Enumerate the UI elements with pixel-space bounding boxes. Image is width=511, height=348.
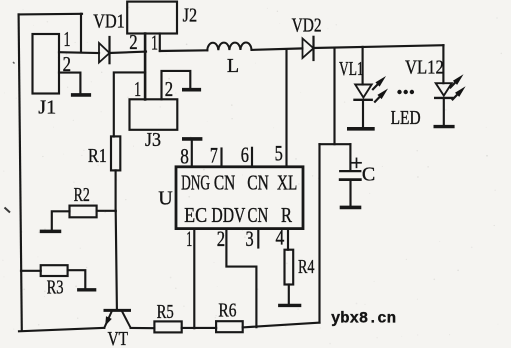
- wire VD1 cathode to node under J2: [110, 52, 147, 53]
- resistor R5: [154, 321, 181, 332]
- transistor VT: [104, 310, 130, 327]
- wire IC pin8 to top bar: [191, 141, 193, 167]
- wire IC pin1 lead down to bottom rail: [193, 229, 195, 329]
- diode VD2: [303, 37, 314, 60]
- svg-text:VL12: VL12: [405, 56, 444, 78]
- svg-text:R4: R4: [298, 256, 315, 278]
- ground bar at R2: [42, 230, 60, 234]
- wire R2 right lead: [97, 210, 116, 212]
- svg-text:R3: R3: [47, 276, 64, 298]
- svg-text:EC: EC: [184, 203, 207, 227]
- svg-text:CN: CN: [248, 203, 269, 227]
- resistor R3: [41, 265, 68, 276]
- wire J1 pin1 to VD1 anode: [59, 51, 99, 54]
- wire outer top rail: [19, 13, 82, 16]
- svg-text:DNG: DNG: [181, 171, 210, 195]
- connector J2: [127, 2, 177, 34]
- wire J3 pin2 to ground: [162, 71, 191, 99]
- inductor L: [207, 42, 251, 50]
- ground bar at J1 pin2: [73, 93, 90, 97]
- wire L to VD2 anode: [252, 48, 303, 50]
- wire node to R1: [114, 72, 145, 136]
- svg-text:8: 8: [180, 143, 189, 168]
- LED VL1: [349, 47, 388, 129]
- wire R2 node to VT base: [116, 211, 117, 309]
- svg-text:J2: J2: [183, 5, 198, 27]
- capacitor C: [340, 158, 361, 207]
- svg-text:1: 1: [186, 226, 192, 251]
- svg-text:R5: R5: [157, 301, 174, 323]
- svg-text:L: L: [227, 55, 239, 77]
- wire top-right drop to J1 pin1 net: [80, 14, 82, 52]
- diode VD1: [99, 37, 110, 63]
- connector J1: [33, 34, 60, 94]
- svg-text:VL1: VL1: [339, 58, 364, 80]
- ground bar at R4: [280, 304, 300, 307]
- wire R2 left lead to ground: [52, 211, 70, 229]
- wire drop to capacitor tee: [333, 48, 335, 145]
- wire outer left rail: [19, 14, 22, 330]
- svg-text:R2: R2: [74, 184, 90, 206]
- wire VD2 cathode rail to VL12: [314, 45, 444, 48]
- wire IC pin2 path down and right to bottom rail: [226, 229, 256, 328]
- wire R3 left lead: [21, 270, 41, 272]
- wire IC pin4 to R4: [287, 229, 289, 250]
- dots between LEDs: [397, 90, 414, 94]
- svg-text:VD1: VD1: [93, 11, 125, 33]
- wire R4 to ground: [288, 285, 290, 304]
- wire node to IC pin5 (XL): [285, 50, 287, 167]
- wire VT collector to R5: [131, 327, 155, 329]
- wire tee right leg to capacitor: [349, 144, 351, 170]
- ground bar at R3: [79, 288, 95, 291]
- pin 6 stub: [251, 148, 253, 166]
- resistor R4: [285, 250, 294, 285]
- svg-text:2: 2: [129, 30, 137, 54]
- svg-text:2: 2: [165, 77, 173, 101]
- svg-text:VT: VT: [108, 328, 129, 348]
- svg-text:LED: LED: [391, 107, 421, 129]
- svg-text:R: R: [281, 203, 292, 227]
- svg-text:J1: J1: [38, 97, 56, 119]
- svg-text:CN: CN: [247, 171, 269, 195]
- svg-text:VD2: VD2: [292, 15, 322, 37]
- svg-text:1: 1: [64, 27, 71, 51]
- op-amp IC U box: [176, 167, 303, 229]
- svg-text:2: 2: [217, 226, 225, 251]
- svg-text:R6: R6: [218, 300, 236, 322]
- scan speck marks: [5, 62, 106, 213]
- wire R5 to R6: [182, 327, 216, 329]
- wire J2 pin1 to inductor L: [160, 49, 208, 52]
- svg-text:ybx8.cn: ybx8.cn: [331, 310, 396, 328]
- wire J2 pin1 lead: [159, 34, 161, 52]
- svg-text:XL: XL: [277, 171, 297, 195]
- svg-text:1: 1: [134, 77, 141, 101]
- svg-text:1: 1: [151, 30, 158, 54]
- resistor R2: [70, 206, 97, 218]
- resistor R1: [111, 136, 120, 170]
- pin 7 stub: [220, 149, 222, 167]
- svg-text:3: 3: [246, 226, 254, 251]
- pin 3 stub: [257, 229, 259, 248]
- wire R1 to R2 node: [115, 170, 117, 211]
- wire tee left leg down to bottom rail: [318, 144, 320, 322]
- wire J2 pin2 lead down to J3 pin1: [144, 34, 147, 100]
- ground bar at J3 pin2: [184, 88, 200, 92]
- connector J3: [130, 99, 178, 130]
- svg-text:J3: J3: [145, 129, 161, 151]
- svg-text:C: C: [362, 163, 375, 185]
- wire capacitor tee horizontal: [320, 143, 351, 145]
- svg-text:DDV: DDV: [211, 203, 245, 227]
- svg-text:5: 5: [275, 141, 283, 166]
- svg-text:2: 2: [63, 52, 71, 76]
- wire J1 pin2 to ground: [59, 73, 80, 93]
- bar terminal at pin8: [184, 137, 201, 141]
- svg-text:6: 6: [241, 142, 249, 167]
- svg-text:U: U: [158, 188, 173, 210]
- resistor R6: [216, 321, 243, 332]
- wire bottom-left rail to VT emitter: [19, 328, 104, 331]
- wire R3 right lead to ground: [68, 270, 86, 288]
- wire R6 to bottom-right corner: [243, 323, 320, 328]
- svg-text:R1: R1: [88, 145, 107, 167]
- svg-text:4: 4: [276, 225, 285, 250]
- LED VL12: [435, 45, 465, 126]
- svg-text:7: 7: [210, 143, 218, 168]
- svg-text:CN: CN: [214, 171, 235, 195]
